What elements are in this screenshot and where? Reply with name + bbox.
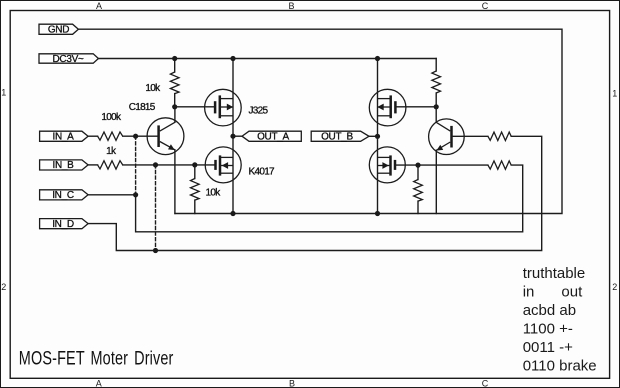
resistor 10k pulldown right (414, 165, 423, 213)
truth table text (523, 265, 597, 374)
input flag IN_D (40, 219, 89, 230)
svg-text:OUT_B: OUT_B (321, 131, 353, 142)
wire node A1 to J325 gate (175, 106, 215, 108)
wire K4017 vertical drain-source (232, 136, 234, 213)
svg-text:OUT_A: OUT_A (257, 131, 289, 142)
wire M4 gate to pulldown node (395, 164, 488, 166)
svg-text:in: in (523, 284, 535, 301)
svg-text:DC3V~: DC3V~ (52, 54, 83, 65)
dashed link IN_A node to IN_C node (135, 136, 137, 195)
node OUT_A (230, 134, 235, 139)
wire right column (377, 59, 379, 214)
resistor gate drive right (lower) (488, 161, 511, 169)
svg-text:K4017: K4017 (249, 167, 276, 178)
svg-text:GND: GND (48, 25, 69, 36)
wire IN_A to resistor (88, 135, 98, 137)
resistor base drive right (upper) (488, 132, 511, 140)
node J325 source column (230, 56, 235, 61)
dashed link IN_B node to IN_D line (155, 165, 157, 251)
svg-text:1: 1 (612, 89, 617, 99)
svg-text:A: A (96, 379, 102, 388)
svg-text:acbd ab: acbd ab (523, 302, 576, 319)
svg-text:0110 brake: 0110 brake (523, 358, 597, 375)
svg-text:B: B (289, 379, 295, 388)
mosfet M4 N-ch right (369, 147, 405, 183)
svg-text:2: 2 (612, 282, 617, 292)
svg-text:IN_D: IN_D (52, 219, 74, 230)
transistor Q2 right (429, 107, 465, 214)
svg-text:B: B (288, 1, 294, 11)
svg-text:IN_A: IN_A (52, 131, 74, 142)
wire OUT_A link (233, 135, 242, 137)
wire IN_D run to right side (88, 136, 542, 250)
wire 1k to K4017 gate (123, 164, 216, 166)
node A1 gate drive (172, 104, 177, 109)
svg-text:J325: J325 (249, 106, 269, 117)
node DC3V / 10k (172, 56, 177, 61)
wire IN_C run to right side (88, 165, 523, 232)
wire IN_B to resistor (88, 164, 98, 166)
svg-text:A: A (96, 1, 102, 11)
svg-text:10k: 10k (206, 187, 222, 198)
resistor 10k top-left (145, 59, 179, 107)
output flag OUT_A (242, 131, 301, 142)
node IN_D dashed end (153, 248, 158, 253)
resistor 10k pulldown left (191, 165, 222, 214)
node rail K4017 (230, 211, 235, 216)
net flag DC3V~ (39, 54, 98, 65)
input flag IN_C (40, 190, 89, 201)
svg-text:0011 -+: 0011 -+ (523, 339, 573, 356)
svg-text:truthtable: truthtable (523, 265, 586, 282)
svg-text:IN_C: IN_C (52, 190, 74, 201)
wire J325 vertical drain-source (232, 59, 234, 137)
input flag IN_B (40, 160, 89, 171)
wire DC3V rail (98, 58, 436, 60)
node A2 (434, 104, 439, 109)
node right column top (375, 56, 380, 61)
node OUT_B (375, 134, 380, 139)
svg-text:out: out (561, 284, 583, 301)
mosfet M3 P-ch right (369, 89, 406, 126)
mosfet M2 K4017 (205, 147, 275, 183)
output flag OUT_B (311, 131, 369, 142)
transistor Q1 C1815 (129, 102, 184, 213)
svg-text:10k: 10k (145, 83, 161, 94)
resistor 100k (98, 112, 123, 141)
svg-text:C: C (482, 379, 489, 388)
node rail right column (375, 211, 380, 216)
node IN_B dashed branch (153, 162, 158, 167)
node after 100k (133, 134, 138, 139)
svg-text:IN_B: IN_B (52, 160, 74, 171)
resistor 10k top-right (432, 59, 441, 107)
node 10k pulldown tap (192, 162, 197, 167)
wire GND top run (78, 29, 562, 213)
resistor 1k (98, 146, 123, 169)
svg-text:1: 1 (1, 88, 6, 98)
node IN_C (133, 192, 138, 197)
input flag IN_A (40, 131, 89, 142)
wire OUT_B link (369, 135, 378, 137)
mosfet M1 J325 (205, 89, 269, 126)
svg-text:MOS-FET Moter Driver: MOS-FET Moter Driver (19, 348, 174, 369)
svg-text:1100 +-: 1100 +- (523, 321, 573, 338)
svg-text:100k: 100k (101, 112, 122, 123)
wire 100k to base (123, 135, 159, 137)
svg-text:2: 2 (1, 282, 6, 292)
node M4 gate (415, 163, 420, 168)
wire M3 gate to node A2 (395, 106, 436, 108)
wire Q2 base to resistor (452, 135, 488, 137)
net flag GND (39, 24, 78, 35)
svg-text:C1815: C1815 (129, 102, 156, 113)
svg-text:C: C (482, 1, 489, 11)
